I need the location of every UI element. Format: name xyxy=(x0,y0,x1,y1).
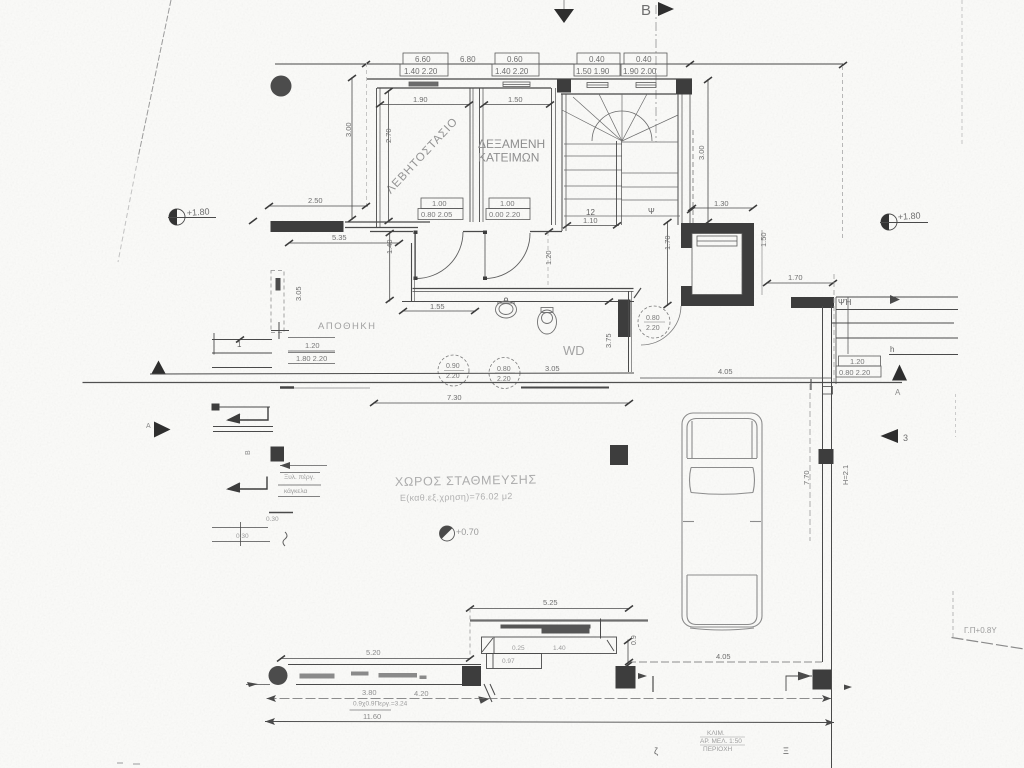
dim 9.50 above bar xyxy=(265,196,370,209)
room 2 tank room walls xyxy=(480,88,556,225)
bottom-left dim 5.20 xyxy=(277,648,474,662)
room1 door dim box 1.00/0.80 2.05 xyxy=(418,198,463,220)
svg-text:11.60: 11.60 xyxy=(363,712,381,721)
dashed dim line right 4.05 xyxy=(625,652,822,665)
column top wall right xyxy=(676,80,692,95)
left arrow marker 3 xyxy=(881,429,909,443)
shower circle 1 xyxy=(438,355,469,386)
hall lower wall line xyxy=(402,301,634,303)
step bracket 1 xyxy=(228,407,268,424)
storage door label 0.80/2.20 xyxy=(644,315,665,332)
bottom porch: dim 5.25 xyxy=(466,598,633,612)
toilet xyxy=(538,308,557,335)
small diag marks below left column xyxy=(479,684,495,703)
svg-text:0.30: 0.30 xyxy=(266,516,279,523)
svg-text:ΔΕΞΑΜΕΝΗ: ΔΕΞΑΜΕΝΗ xyxy=(478,137,545,151)
parking dim 7.30 xyxy=(370,393,633,406)
svg-text:0.40: 0.40 xyxy=(636,55,652,64)
dim 4.05 top of garage xyxy=(640,367,832,378)
big round column bottom-left xyxy=(269,666,288,685)
elevator width dim 1.70 left xyxy=(663,219,672,308)
svg-text:1.40: 1.40 xyxy=(385,239,394,254)
room2 door dim box 1.00/0.00 2.20 xyxy=(486,198,530,220)
porch dark bars xyxy=(501,625,591,629)
svg-text:5.25: 5.25 xyxy=(543,598,558,607)
bottom-right boundary slant xyxy=(952,591,1024,649)
porch vertical dashed left xyxy=(469,609,471,660)
bottom-left wall lines xyxy=(288,665,481,685)
dim 5.35 below bar xyxy=(285,233,403,246)
dimension box 0.40/1.90 2.00 xyxy=(621,53,667,76)
svg-text:A: A xyxy=(146,423,151,430)
lines right of column xyxy=(278,466,327,497)
svg-text:0.9χ0.9Περγ.=3.24: 0.9χ0.9Περγ.=3.24 xyxy=(353,701,408,708)
svg-text:B: B xyxy=(641,2,651,19)
column top wall left xyxy=(557,80,571,93)
far right vertical dashed xyxy=(961,0,963,145)
elevator cab xyxy=(692,234,742,295)
room 1 boiler room walls xyxy=(377,88,474,228)
svg-text:3.75: 3.75 xyxy=(604,333,613,348)
svg-text:4.20: 4.20 xyxy=(414,689,429,698)
building top wall xyxy=(367,79,692,94)
svg-text:1.90: 1.90 xyxy=(413,95,428,104)
porch right vertical dim xyxy=(624,635,638,668)
elevator shaft walls xyxy=(681,223,754,306)
svg-text:1.20: 1.20 xyxy=(850,357,865,366)
svg-text:2.20: 2.20 xyxy=(446,373,460,380)
svg-text:3.00: 3.00 xyxy=(697,145,706,160)
dim 1.55 xyxy=(399,302,479,314)
stair winder radial lines xyxy=(562,94,678,141)
right section triangle xyxy=(892,365,907,381)
dimension box 6.60/1.40 2.20 xyxy=(400,53,448,76)
svg-text:1.00: 1.00 xyxy=(500,199,515,208)
small lower lines xyxy=(212,513,293,547)
level marker +1.80 left xyxy=(168,206,216,225)
door 2 leaf and arc xyxy=(485,232,530,279)
outer height dim 3.00 xyxy=(344,63,367,222)
svg-text:3.00: 3.00 xyxy=(344,122,353,137)
svg-text:1.50 1.90: 1.50 1.90 xyxy=(576,67,610,76)
svg-text:3: 3 xyxy=(903,433,908,443)
svg-text:5.35: 5.35 xyxy=(332,233,347,242)
svg-text:3.80: 3.80 xyxy=(362,688,377,697)
svg-text:0.9: 0.9 xyxy=(631,635,638,645)
svg-text:4.05: 4.05 xyxy=(718,367,733,376)
wall hatched segments xyxy=(300,672,427,680)
corridor dim 1.40 xyxy=(385,230,394,303)
svg-text:0.80: 0.80 xyxy=(497,366,511,373)
stair treads right flight xyxy=(622,142,678,200)
svg-text:0.90: 0.90 xyxy=(446,363,460,370)
storage room door arc at elevator xyxy=(638,306,681,345)
svg-text:WD: WD xyxy=(563,343,585,358)
faint bottom-left dots xyxy=(117,762,140,765)
svg-text:+1.80: +1.80 xyxy=(897,210,920,222)
level marker +1.80 right xyxy=(880,210,928,230)
level marker +0.70 xyxy=(436,523,478,541)
svg-text:1.55: 1.55 xyxy=(430,302,445,311)
chimney bottom cross xyxy=(271,322,289,339)
stair height dim 3.00 right xyxy=(687,77,712,225)
right door dim box 1.20/0.80 2.20 xyxy=(836,356,881,377)
svg-text:0.80 2.20: 0.80 2.20 xyxy=(839,368,870,377)
small box on wall top xyxy=(823,387,833,395)
room1 height dim 2.70 xyxy=(384,88,393,224)
WC bottom dark wall xyxy=(521,387,609,389)
tree dot upper-left xyxy=(271,76,292,97)
svg-text:h: h xyxy=(890,345,894,354)
shower circle 2 xyxy=(489,358,520,389)
svg-text:ΠΕΡΙΟΧΗ: ΠΕΡΙΟΧΗ xyxy=(703,746,733,753)
svg-text:Γ.Π+0.8Υ: Γ.Π+0.8Υ xyxy=(964,626,997,635)
section triangle A left xyxy=(154,422,171,438)
room2 label xyxy=(478,137,545,165)
svg-text:Ψ: Ψ xyxy=(648,207,655,216)
svg-text:Ξυλ. πέργ.: Ξυλ. πέργ. xyxy=(284,473,315,481)
svg-text:+0.70: +0.70 xyxy=(456,527,479,537)
svg-text:ΑΡ. ΜΕΛ. 1:50: ΑΡ. ΜΕΛ. 1:50 xyxy=(700,738,742,745)
svg-text:7.70: 7.70 xyxy=(802,470,811,485)
door 1 leaf and arc xyxy=(416,232,464,279)
svg-text:+1.80: +1.80 xyxy=(186,206,209,218)
small tick on site line right xyxy=(810,379,812,390)
svg-text:0.80: 0.80 xyxy=(646,315,660,322)
wall bar right of elevator xyxy=(791,297,834,308)
elevator dim 1.30 xyxy=(688,199,757,211)
svg-text:6.60: 6.60 xyxy=(415,55,431,64)
dimension box 0.40/1.50 1.90 xyxy=(574,53,620,76)
left porch lines row1 xyxy=(213,407,273,432)
svg-text:2.70: 2.70 xyxy=(384,128,393,143)
svg-text:1.50: 1.50 xyxy=(508,95,523,104)
svg-text:1: 1 xyxy=(237,340,242,349)
right retaining wall lines xyxy=(832,297,958,384)
svg-text:3.05: 3.05 xyxy=(294,286,303,301)
porch lower box xyxy=(487,654,542,669)
column WC right xyxy=(618,300,631,338)
porch thick line xyxy=(470,619,648,621)
dim 1.70 to boundary xyxy=(763,273,837,286)
bottom text block xyxy=(700,730,742,753)
stair winder arc xyxy=(592,111,652,141)
long site line mid xyxy=(150,373,634,374)
section triangle left upper xyxy=(151,361,166,375)
svg-text:1.20: 1.20 xyxy=(544,250,553,265)
porch columns bottom xyxy=(462,666,481,686)
svg-text:0.00 2.20: 0.00 2.20 xyxy=(489,210,520,219)
svg-text:2.20: 2.20 xyxy=(646,325,660,332)
step bracket 2 xyxy=(228,477,267,493)
left center column xyxy=(271,447,285,462)
svg-text:7.30: 7.30 xyxy=(447,393,462,402)
long site line lower xyxy=(83,382,903,384)
parking middle column xyxy=(610,445,628,465)
stairwell left wall xyxy=(562,94,566,231)
svg-text:0.97: 0.97 xyxy=(502,658,515,665)
dark smudge on site line xyxy=(280,386,294,389)
section marker B with arrow xyxy=(641,2,674,142)
svg-text:1.40: 1.40 xyxy=(553,645,566,652)
corridor bottom wall xyxy=(413,289,634,292)
room1 width dim 1.90 xyxy=(376,95,473,108)
svg-text:ζ: ζ xyxy=(654,746,658,756)
svg-text:1.90 2.00: 1.90 2.00 xyxy=(623,67,657,76)
right boundary vertical dashed from corner xyxy=(842,66,844,238)
garage right wall column xyxy=(819,449,834,464)
room2 width dim 1.50 xyxy=(480,95,554,108)
boundary dashed below xyxy=(833,274,835,384)
svg-text:0.30: 0.30 xyxy=(236,533,249,540)
stair bottom dim 1.10 xyxy=(563,216,621,228)
svg-text:κάγκελα: κάγκελα xyxy=(284,487,307,495)
storage door dim box 1.20/1.80 2.20 xyxy=(288,338,335,364)
svg-text:A: A xyxy=(895,388,901,397)
svg-text:ΑΠΟΘΗΚΗ: ΑΠΟΘΗΚΗ xyxy=(318,321,377,332)
svg-text:3.05: 3.05 xyxy=(545,364,560,373)
window openings in top wall xyxy=(409,82,656,88)
north/section marker A top xyxy=(554,0,574,23)
dimension box 0.60/1.40 2.20 xyxy=(492,53,539,76)
faint texts xyxy=(284,473,315,495)
svg-text:4.05: 4.05 xyxy=(716,652,731,661)
corridor top wall with doors xyxy=(345,222,562,232)
svg-text:1.40 2.20: 1.40 2.20 xyxy=(495,67,529,76)
svg-text:B: B xyxy=(245,450,252,455)
svg-text:H=2.1: H=2.1 xyxy=(841,465,850,485)
svg-text:0.25: 0.25 xyxy=(512,645,525,652)
svg-text:ΨΉ: ΨΉ xyxy=(838,298,852,307)
svg-text:Ξ: Ξ xyxy=(783,746,789,756)
svg-text:ΚΛΙΜ.: ΚΛΙΜ. xyxy=(707,730,725,737)
bottom dim dashed 3.80 4.20 xyxy=(267,688,832,702)
svg-text:1.40 2.20: 1.40 2.20 xyxy=(404,67,438,76)
svg-text:1.20: 1.20 xyxy=(305,341,320,350)
left wing: wall bar xyxy=(271,221,344,232)
svg-text:1.70: 1.70 xyxy=(788,273,803,282)
chimney shaft dashed xyxy=(271,271,284,333)
svg-text:ΚΑΤΕΙΜΩΝ: ΚΑΤΕΙΜΩΝ xyxy=(478,151,539,165)
stairwell right wall xyxy=(678,94,693,225)
left porch small square xyxy=(212,404,220,411)
svg-text:1.30: 1.30 xyxy=(714,199,729,208)
svg-text:0.60: 0.60 xyxy=(507,55,523,64)
stair treads left flight xyxy=(564,144,680,216)
svg-text:Ε(καθ.εξ.χρηση)=76.02 μ2: Ε(καθ.εξ.χρηση)=76.02 μ2 xyxy=(400,491,513,503)
svg-text:0.40: 0.40 xyxy=(589,55,605,64)
svg-text:6.80: 6.80 xyxy=(460,55,476,64)
svg-text:1.70: 1.70 xyxy=(663,235,672,250)
porch big rectangle xyxy=(482,637,617,654)
car xyxy=(682,413,762,630)
left steps xyxy=(212,333,272,368)
svg-text:5.20: 5.20 xyxy=(366,648,381,657)
top main dimension line xyxy=(275,63,843,65)
garage right wall xyxy=(810,306,832,768)
svg-text:1.10: 1.10 xyxy=(583,216,598,225)
svg-text:0.80 2.05: 0.80 2.05 xyxy=(421,210,452,219)
bottom long dim 11.60 xyxy=(265,712,834,726)
washbasin xyxy=(496,298,517,318)
svg-text:2.50: 2.50 xyxy=(308,196,323,205)
svg-text:1.80 2.20: 1.80 2.20 xyxy=(296,354,327,363)
svg-text:1.00: 1.00 xyxy=(432,199,447,208)
svg-text:1.50: 1.50 xyxy=(759,232,768,247)
corner tick at corridor wall end xyxy=(634,288,641,298)
svg-text:ΧΩΡΟΣ ΣΤΑΘΜΕΥΣΗΣ: ΧΩΡΟΣ ΣΤΑΘΜΕΥΣΗΣ xyxy=(395,473,537,489)
WC right wall xyxy=(629,291,632,372)
site boundary slanted line top-left xyxy=(118,0,171,262)
left wall corner of corridor xyxy=(412,232,415,302)
stair central wall xyxy=(617,141,622,225)
step bracket right of col xyxy=(786,672,812,691)
